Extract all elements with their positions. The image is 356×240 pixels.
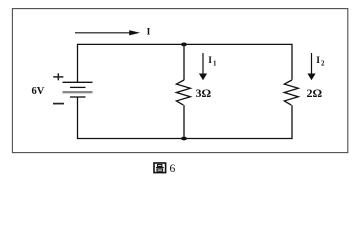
battery plate short — [70, 86, 86, 88]
svg-text:I: I — [147, 27, 151, 37]
battery plate short bottom — [70, 96, 86, 98]
svg-text:3Ω: 3Ω — [196, 86, 212, 100]
wire: bottom horizontal — [78, 138, 293, 140]
svg-text:6V: 6V — [32, 86, 45, 97]
svg-text:6: 6 — [170, 163, 176, 175]
wire: left branch upper (to battery) — [77, 44, 79, 83]
node: bottom junction dot — [181, 137, 187, 141]
wire: middle branch lower — [183, 105, 185, 139]
wire: right branch upper — [291, 44, 293, 80]
current arrow I (top) — [75, 30, 140, 35]
caption glyph: Chinese character "tu" (figure), drawn — [154, 163, 166, 173]
svg-text:2: 2 — [321, 59, 325, 67]
resistor R1 zigzag (3 ohm) — [176, 80, 190, 105]
wire: right branch lower — [291, 105, 293, 139]
current arrow I1 — [199, 53, 207, 80]
label: + polarity — [53, 73, 63, 80]
svg-text:1: 1 — [213, 59, 217, 67]
wire: middle branch upper — [183, 44, 185, 80]
wire: left branch lower (from battery) — [77, 97, 79, 139]
battery plate long (thick gray) — [63, 91, 93, 93]
wire: top horizontal — [78, 43, 293, 45]
battery V1 (6V source) — [63, 82, 93, 97]
figure border frame — [12, 9, 347, 153]
svg-text:2Ω: 2Ω — [307, 86, 323, 100]
svg-text:I: I — [316, 56, 320, 66]
current arrow I2 — [307, 53, 315, 80]
node: top junction dot — [181, 43, 187, 47]
resistor R2 zigzag (2 ohm) — [284, 80, 298, 105]
svg-text:I: I — [208, 56, 212, 66]
battery plate long top — [63, 81, 93, 83]
label: - polarity — [53, 103, 64, 105]
